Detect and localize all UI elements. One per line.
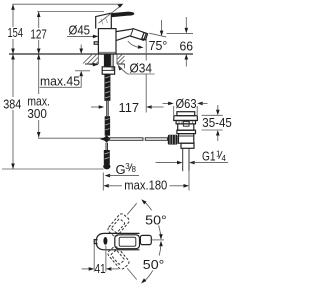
handle block [96,13,112,29]
plan view rear stub [94,240,97,244]
plan view handle centerline [152,239,164,241]
50 degree label lower [142,256,166,272]
svg-text:max.45: max.45 [40,73,80,88]
aerator [142,33,148,41]
plan view faucet body capsule [96,233,139,249]
svg-text:4: 4 [222,154,227,163]
dashed handle position upper [107,212,131,237]
drain lower flange [177,130,196,133]
dimension 127 extension line top [37,11,104,13]
pull rod below counter [111,55,113,71]
faucet body [98,29,116,54]
svg-text:117: 117 [119,100,140,115]
drain flange [174,116,198,121]
dimension 127 [30,12,47,55]
svg-text:66: 66 [180,39,194,54]
supply pipe threaded section 2 [105,116,110,136]
drain body [179,134,194,144]
svg-text:8: 8 [132,165,137,174]
supply pipe thin section [107,101,109,116]
spout [116,29,146,41]
label Ø34 [90,60,155,75]
dimension 154 extension line top [12,3,122,5]
countertop slab hatching left [83,55,98,65]
countertop slab hatching right [117,55,125,69]
drain neck [178,122,194,131]
svg-text:50°: 50° [145,212,167,227]
label G3/8 [105,162,139,178]
dimension 35-45 [202,105,232,141]
svg-text:Ø45: Ø45 [69,22,91,37]
pull-rod knob stub [94,42,98,44]
svg-text:G1: G1 [202,148,216,163]
dimension 384 [2,54,104,169]
G3/8 nipple tip [103,163,110,169]
dashed lower centerline [127,268,136,279]
plan view handle escutcheon [115,235,140,249]
countertop surface line [9,53,193,55]
dimension max.300 [27,54,103,138]
svg-text:35-45: 35-45 [202,115,232,130]
svg-text:127: 127 [30,27,47,42]
rod clamp on drain [168,135,178,145]
svg-text:50°: 50° [143,257,165,272]
dashed handle position lower [107,245,131,270]
svg-text:max.180: max.180 [124,178,167,193]
swivel arc upper [141,199,162,239]
dimension 154 [8,4,24,54]
handle lever [111,12,134,18]
hole edge right [116,54,118,64]
svg-text:Ø34: Ø34 [130,60,153,75]
label G1 1/4 [156,148,229,164]
lever raised motion line [99,4,124,24]
pop-up actuating rod [108,138,167,141]
50 degree label upper [144,210,168,227]
label Ø45 [67,22,98,38]
plan view lever neck [140,235,151,244]
svg-text:Ø63: Ø63 [176,96,197,111]
dashed upper centerline [127,203,136,214]
dimension 66 [167,17,193,67]
hole edge left [97,54,99,64]
svg-text:154: 154 [8,25,24,40]
drain plug cap [177,112,195,116]
drain tail collar [181,143,194,148]
svg-text:75°: 75° [149,38,168,53]
dimension Ø63 [163,96,208,115]
supply pipe thin section 2 [106,143,108,150]
svg-text:1: 1 [216,150,221,159]
75 degree annotation [128,20,168,53]
rod junction [103,135,111,143]
drain knurled ring [176,121,195,124]
drain tailpipe [183,148,189,171]
plan view handle inner detail [119,237,136,246]
svg-text:41: 41 [95,261,106,276]
rod arrowhead left [100,137,105,140]
plan view pull rod knob [103,237,107,245]
svg-text:384: 384 [3,97,21,112]
threaded shank section [104,74,110,101]
svg-text:G: G [116,162,126,177]
swivel arc lower [141,241,163,284]
dimension max.180 [103,171,189,193]
supply pipe threaded end [104,150,110,164]
aerator extension line [145,38,147,113]
dimension 117 [91,100,164,115]
label max.45 [40,45,90,89]
dimension 41 [82,244,119,276]
mounting nut [102,67,114,74]
faucet shank through counter [104,55,111,67]
svg-text:300: 300 [27,106,47,121]
